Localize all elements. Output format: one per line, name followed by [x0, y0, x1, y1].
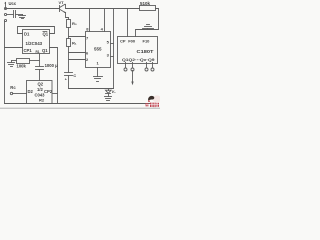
transistor VT — [59, 6, 61, 12]
svg-text:CP2: CP2 — [44, 89, 53, 94]
svg-text:7: 7 — [86, 36, 89, 41]
svg-text:1/2: 1/2 — [37, 87, 43, 92]
IC 555 box — [86, 32, 111, 68]
wire left bus vertical — [4, 22, 6, 104]
wire output stub Qv — [146, 63, 148, 68]
svg-text:Ucc: Ucc — [9, 1, 17, 6]
wire Q1 to CP2 bus — [50, 48, 58, 104]
IC U2 flip-flop 1/2 C043 box — [27, 81, 53, 104]
svg-text:5: 5 — [107, 40, 110, 45]
wire 555 pin5 stub — [111, 43, 114, 45]
wire D1 feedback loop — [18, 27, 55, 34]
svg-text:C180T: C180T — [137, 49, 155, 54]
svg-text:Q1: Q1 — [43, 32, 49, 37]
svg-text:1: 1 — [97, 61, 100, 66]
wire CP2 stub — [53, 93, 58, 95]
ground (input) — [22, 15, 24, 16]
resistor Rb — [67, 39, 71, 47]
wire R1 pin down — [39, 54, 41, 67]
svg-text:2: 2 — [86, 57, 89, 62]
svg-text:6: 6 — [86, 51, 89, 56]
svg-text:Q2: Q2 — [38, 82, 44, 87]
svg-text:F10: F10 — [143, 39, 151, 44]
wire counter CP to rail — [127, 9, 129, 37]
IC U1 flip-flop 1/2C043 box — [23, 30, 50, 54]
svg-text:555: 555 — [94, 47, 102, 52]
wire Rc to D2 — [13, 93, 27, 95]
svg-text:8: 8 — [86, 27, 89, 32]
svg-text:1/2C043: 1/2C043 — [26, 41, 43, 46]
svg-text:D1: D1 — [24, 32, 30, 37]
capacitor 1000u — [36, 66, 44, 68]
svg-text:R2: R2 — [39, 98, 45, 103]
ground (diode) — [105, 96, 112, 98]
svg-text:D2: D2 — [28, 89, 34, 94]
wire output horizontal — [69, 88, 114, 90]
capacitor C timing — [65, 72, 73, 74]
wire bottom rail — [5, 103, 150, 105]
wire 510k to counter — [136, 9, 159, 37]
node Rc input terminal — [10, 92, 12, 94]
wire 555 pin4 to rail — [104, 9, 106, 32]
wire CP1 input — [5, 47, 23, 49]
wire cap C to ground wire — [68, 76, 70, 89]
ground (100k) — [11, 61, 13, 63]
ground inverted (counter reset) — [147, 29, 149, 30]
wire to 555 pin6 — [69, 52, 86, 54]
svg-text:Q1: Q1 — [42, 48, 48, 53]
wire Rb down — [68, 47, 70, 73]
svg-text:Q1Q2⋯Qv·Q9: Q1Q2⋯Qv·Q9 — [122, 57, 155, 62]
red stamp logo — [146, 95, 162, 107]
svg-text:R₁: R₁ — [72, 41, 77, 46]
svg-text:CP: CP — [120, 39, 126, 44]
node Ucc supply terminal — [4, 7, 6, 9]
wire capacitor to ground — [16, 14, 23, 16]
wire to 555 pin2 — [69, 59, 86, 61]
ground (555 pin1) — [94, 76, 103, 78]
diode V2 — [108, 89, 110, 91]
wire vcc/output vertical — [113, 9, 115, 89]
wire top rail left segment — [6, 8, 60, 10]
svg-text:VT: VT — [59, 0, 65, 5]
wire Ra to node7 — [68, 28, 70, 39]
svg-text:Rc: Rc — [10, 85, 16, 90]
wire cap to FF2 — [39, 70, 41, 81]
wire 555 pin8 to rail — [89, 9, 91, 32]
wire output stub Q2 with arrow — [132, 63, 134, 68]
svg-text:F00: F00 — [128, 39, 136, 44]
resistor 100k — [17, 59, 30, 64]
svg-text:4: 4 — [101, 27, 104, 32]
wire output stub Q9 — [152, 63, 154, 68]
node input terminal 2 — [4, 13, 6, 15]
page border rule — [0, 107, 160, 109]
svg-text:R₀: R₀ — [72, 21, 77, 26]
resistor 510k — [140, 6, 156, 11]
svg-text:V₂: V₂ — [112, 90, 117, 94]
IC counter C180T box — [118, 37, 158, 64]
svg-text:100k: 100k — [17, 64, 27, 69]
svg-text:1000 μ: 1000 μ — [45, 63, 58, 68]
svg-text:510k: 510k — [140, 1, 151, 6]
wire 555 pin3 stub — [111, 56, 114, 58]
node input terminal 3 — [4, 19, 6, 21]
wire node to 555 pin7 — [69, 36, 86, 38]
svg-text:R1: R1 — [36, 50, 40, 54]
wire top rail right segment — [66, 8, 140, 10]
resistor Ra — [67, 20, 71, 28]
svg-text:3: 3 — [107, 53, 110, 58]
wire terminal2 to capacitor — [7, 14, 14, 16]
wire output stubs Q1 — [125, 63, 127, 68]
svg-text:CP1: CP1 — [24, 48, 33, 53]
capacitor C (input decoupling) — [13, 11, 15, 18]
wire emitter down — [66, 13, 69, 20]
svg-text:C: C — [73, 74, 76, 78]
wire 555 pin1 ground stub — [97, 68, 99, 77]
svg-text:+: + — [65, 77, 67, 81]
